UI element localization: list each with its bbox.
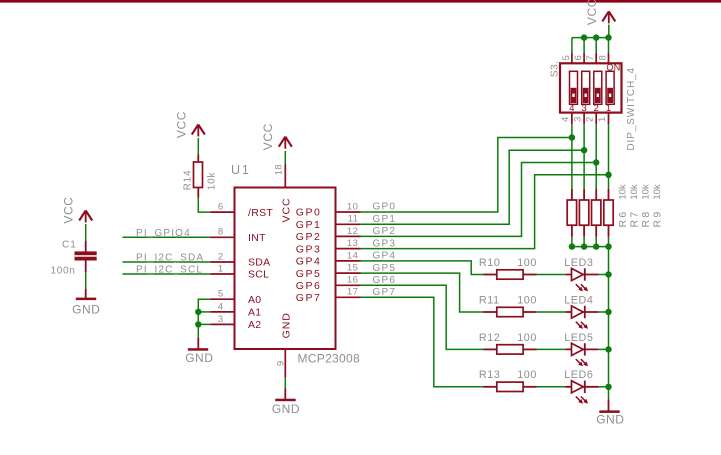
pin number 3 [218, 314, 224, 325]
net label GP0 [373, 202, 397, 213]
value 10k (R7) [629, 184, 640, 200]
label LED3 [564, 257, 593, 269]
pin name GP3 [296, 243, 322, 255]
svg-text:LED5: LED5 [564, 332, 593, 344]
pin name GP7 [296, 292, 322, 304]
resistor R6 [567, 189, 576, 237]
svg-text:C1: C1 [62, 240, 77, 251]
svg-text:GND: GND [72, 303, 100, 317]
svg-text:GP5: GP5 [373, 263, 397, 274]
svg-text:12: 12 [347, 226, 358, 237]
svg-text:13: 13 [347, 238, 358, 249]
pin 6 stub (S3) [583, 53, 585, 63]
svg-text:DIP_SWITCH_4: DIP_SWITCH_4 [626, 67, 637, 151]
pin 4 stub (S3) [571, 113, 573, 125]
junction S3 bus col 2 [581, 34, 587, 40]
pin number 8 (S3 top) [598, 55, 609, 60]
resistor R9 [604, 189, 613, 237]
pin 9 (GND) [284, 349, 286, 378]
pin number 11 [348, 214, 359, 225]
pin name SDA [248, 257, 271, 269]
label GND (pin 9) [272, 402, 300, 416]
wire A2 to GND [197, 324, 199, 338]
label LED5 [564, 332, 593, 344]
svg-text:LED4: LED4 [564, 294, 593, 306]
svg-text:100: 100 [517, 257, 537, 269]
pin 14 (GP4) [336, 260, 361, 262]
svg-text:16: 16 [347, 275, 358, 286]
svg-text:7: 7 [585, 55, 596, 60]
pin number 6 (S3 top) [573, 55, 584, 60]
wire A1 [198, 311, 210, 313]
wire R7 bottom [583, 237, 585, 247]
junction GP1 at S3 column [581, 147, 587, 153]
svg-text:GP5: GP5 [296, 268, 322, 280]
svg-text:SCL: SCL [248, 269, 269, 281]
wire bus to VCC [608, 25, 610, 38]
label VCC (pin 18) [261, 123, 275, 150]
svg-text:8: 8 [218, 227, 224, 238]
svg-text:R6: R6 [617, 209, 629, 227]
svg-text:4: 4 [569, 103, 574, 114]
wire R14 to pin 6 [198, 198, 210, 213]
label LED4 [564, 294, 593, 306]
pin number 3 (S3 bottom) [572, 117, 583, 122]
pin number 1 (S3 bottom) [597, 117, 608, 122]
LED LED6 [565, 381, 598, 404]
svg-text:R8: R8 [640, 209, 652, 227]
wire R9 bottom [608, 237, 610, 247]
svg-text:100: 100 [517, 294, 537, 306]
value 10k (R9) [652, 184, 663, 200]
junction S3 bus col 3 [593, 34, 599, 40]
pin number 6 [218, 202, 224, 213]
svg-text:GP6: GP6 [296, 280, 322, 292]
pin name VCC (U1) [280, 198, 292, 223]
label C1 [62, 240, 77, 251]
svg-text:10k: 10k [641, 184, 652, 200]
svg-text:R12: R12 [479, 332, 501, 344]
svg-text:GP4: GP4 [296, 256, 322, 268]
net label GP6 [373, 275, 397, 286]
svg-text:A0: A0 [248, 294, 261, 306]
svg-text:R13: R13 [479, 369, 501, 381]
svg-text:1: 1 [597, 117, 608, 122]
svg-text:GP4: GP4 [373, 251, 397, 262]
svg-text:PI_I2C_SCL: PI_I2C_SCL [136, 265, 203, 276]
pin name A1 [248, 307, 261, 319]
wire GP6 [361, 285, 484, 349]
wire LED bus [608, 247, 610, 400]
pin number 4 (S3 bottom) [560, 117, 571, 122]
svg-text:11: 11 [348, 214, 359, 225]
svg-text:17: 17 [347, 287, 358, 298]
svg-text:4: 4 [560, 117, 571, 122]
net label PI_GPIO4 [136, 228, 191, 239]
svg-text:VCC: VCC [585, 0, 599, 25]
value 100 (R13) [517, 369, 537, 381]
pin number 13 [347, 238, 358, 249]
value 100 (R12) [517, 332, 537, 344]
wire GP1 [361, 150, 585, 224]
junction R8 bus [593, 243, 599, 249]
label LED6 [564, 369, 593, 381]
wire R10 to LED3 [537, 274, 566, 276]
svg-text:6: 6 [218, 202, 224, 213]
power VCC (S3) [602, 11, 615, 23]
junction R6 bus [569, 243, 575, 249]
resistor R13 [483, 382, 536, 391]
svg-text:GP0: GP0 [373, 202, 397, 213]
svg-text:10k: 10k [206, 172, 217, 191]
resistor R10 [483, 270, 536, 279]
net label PI_I2C_SCL [136, 265, 203, 276]
wire pin18 to VCC [284, 151, 286, 164]
svg-text:GND: GND [596, 412, 624, 426]
wire GP5 [361, 273, 484, 312]
wire S3 col 4 down [608, 124, 610, 189]
label R7 [628, 209, 640, 227]
wire S3 pin 8 riser [608, 38, 610, 53]
junction R9 bus [605, 243, 611, 249]
wire net PI_I2C_SCL [123, 273, 211, 275]
svg-text:100n: 100n [51, 266, 76, 277]
svg-text:R14: R14 [183, 170, 194, 191]
pin 4 (A1) [211, 311, 235, 313]
wire GP3 [361, 175, 609, 249]
svg-text:A2: A2 [248, 319, 261, 331]
svg-text:9: 9 [276, 360, 287, 366]
LED LED5 [565, 343, 598, 366]
svg-text:10: 10 [347, 201, 358, 212]
pin number 14 [347, 250, 358, 261]
pin 3 (A2) [211, 323, 235, 325]
pin number 15 [347, 263, 358, 274]
wire pin9 to GND [284, 378, 286, 389]
svg-text:GP2: GP2 [296, 231, 322, 243]
svg-text:GP1: GP1 [296, 219, 322, 231]
svg-text:1: 1 [606, 103, 611, 114]
svg-text:3: 3 [218, 314, 224, 325]
wire net PI_GPIO4 [123, 236, 211, 238]
svg-text:A1: A1 [248, 307, 261, 319]
pin 1 stub (S3) [608, 113, 610, 125]
junction R7 bus [581, 243, 587, 249]
value 10k (R6) [618, 184, 629, 200]
svg-text:GP7: GP7 [373, 287, 397, 298]
wire S3 col 1 down [571, 124, 573, 189]
resistor R12 [483, 345, 536, 354]
junction LED4 bus [605, 309, 611, 315]
pin name GP4 [296, 256, 322, 268]
wire A2 [198, 312, 210, 325]
wire LED6 to bus [599, 386, 609, 388]
pin number 12 [347, 226, 358, 237]
svg-text:LED6: LED6 [564, 369, 593, 381]
svg-text:GP3: GP3 [296, 243, 322, 255]
net label GP5 [373, 263, 397, 274]
pin 16 (GP6) [336, 284, 361, 286]
power VCC (R14) [192, 125, 205, 137]
pin number 5 (S3 top) [561, 55, 572, 60]
wire LED4 to bus [599, 311, 609, 313]
value 10k (R8) [641, 184, 652, 200]
wire S3 col 3 down [595, 124, 597, 189]
svg-text:1: 1 [218, 263, 224, 274]
junction A1 [195, 309, 201, 315]
switch S3 position digit 3 [581, 103, 586, 114]
pin 10 (GP0) [336, 211, 361, 213]
label U1 [231, 163, 251, 177]
power VCC (pin 18) [279, 137, 292, 149]
svg-text:GP7: GP7 [296, 292, 322, 304]
wire GP4 [361, 261, 484, 275]
svg-text:ON: ON [606, 63, 620, 73]
svg-text:GP1: GP1 [373, 214, 397, 225]
switch S3 body [560, 63, 622, 112]
ground GND (C1) [76, 289, 96, 300]
svg-text:5: 5 [561, 55, 572, 60]
pin number 1 [218, 263, 224, 274]
label R13 [479, 369, 501, 381]
wire net PI_I2C_SDA [123, 261, 211, 263]
svg-text:14: 14 [347, 250, 358, 261]
pin number 2 (S3 bottom) [585, 117, 596, 122]
svg-text:10k: 10k [618, 184, 629, 200]
pin name GP2 [296, 231, 322, 243]
pin number 16 [347, 275, 358, 286]
pin name GP0 [296, 207, 322, 219]
pin number 9 [276, 360, 287, 366]
switch S3 position digit 1 [606, 103, 611, 114]
resistor R8 [592, 189, 601, 237]
pin 18 (VCC) [284, 164, 286, 188]
pin name A2 [248, 319, 261, 331]
svg-text:INT: INT [248, 232, 266, 244]
label VCC (S3) [585, 0, 599, 25]
junction GP3 at S3 column [605, 172, 611, 178]
label R8 [640, 209, 652, 227]
switch S3 position digit 2 [594, 103, 599, 114]
junction S3 bus col 4 [605, 34, 611, 40]
svg-text:2: 2 [218, 251, 224, 262]
pin 2 stub (S3) [595, 113, 597, 125]
pin 7 stub (S3) [595, 53, 597, 63]
svg-text:R9: R9 [651, 209, 663, 227]
pin 13 (GP3) [336, 248, 361, 250]
resistor R11 [483, 307, 536, 316]
svg-text:R11: R11 [479, 294, 500, 306]
pin name INT [248, 232, 266, 244]
svg-text:5: 5 [218, 289, 224, 300]
wire S3 col 2 down [583, 124, 585, 189]
wire GP7 [361, 297, 484, 387]
ground GND (A pins) [188, 338, 208, 351]
svg-text:10k: 10k [652, 184, 663, 200]
label R12 [479, 332, 501, 344]
label R10 [479, 257, 501, 269]
junction GP0 at S3 column [569, 134, 575, 140]
svg-text:2: 2 [594, 103, 599, 114]
IC U1 MCP23008 body [235, 188, 336, 350]
label VCC (C1) [61, 196, 75, 223]
wire R13 to LED6 [537, 386, 566, 388]
power VCC (C1) [79, 211, 92, 223]
resistor R7 [579, 189, 588, 237]
wire R12 to LED5 [537, 348, 566, 350]
pin number 4 [218, 301, 224, 312]
label DIP_SWITCH_4 [626, 67, 637, 151]
net label PI_I2C_SDA [136, 253, 204, 264]
wire GP2 [361, 163, 597, 237]
border top line [0, 0, 721, 3]
pin 11 (GP1) [336, 223, 361, 225]
junction LED6 bus [605, 384, 611, 390]
label S3. [549, 61, 561, 77]
net label GP2 [373, 226, 397, 237]
pin 5 stub (S3) [571, 53, 573, 63]
svg-text:SDA: SDA [248, 257, 271, 269]
wire resistor bottom bus [572, 246, 609, 248]
wire R8 bottom [595, 237, 597, 247]
svg-text:R10: R10 [479, 257, 501, 269]
pin number 17 [347, 287, 358, 298]
net label GP1 [373, 214, 397, 225]
svg-text:GP6: GP6 [373, 275, 397, 286]
pin 6 (/RST) [211, 211, 235, 213]
svg-text:VCC: VCC [280, 198, 292, 223]
svg-text:PI_GPIO4: PI_GPIO4 [136, 228, 191, 239]
svg-text:8: 8 [598, 55, 609, 60]
LED LED3 [565, 268, 598, 291]
svg-text:18: 18 [273, 164, 284, 175]
svg-text:LED3: LED3 [564, 257, 593, 269]
svg-text:15: 15 [347, 263, 358, 274]
svg-text:3: 3 [572, 117, 583, 122]
svg-text:100: 100 [517, 332, 537, 344]
svg-text:PI_I2C_SDA: PI_I2C_SDA [136, 253, 204, 264]
svg-text:GND: GND [185, 351, 213, 365]
wire S3 pin 6 riser [583, 38, 585, 53]
pin 2 (SDA) [211, 261, 235, 263]
junction GP2 at S3 column [593, 159, 599, 165]
value 100 (R10) [517, 257, 537, 269]
pin 1 (SCL) [211, 273, 235, 275]
label R6 [617, 209, 629, 227]
ground GND (pin 9) [275, 389, 295, 402]
svg-text:100: 100 [517, 369, 537, 381]
junction LED5 bus [605, 346, 611, 352]
svg-text:U1: U1 [231, 163, 251, 177]
pin name GP6 [296, 280, 322, 292]
pin 5 (A0) [211, 298, 235, 300]
svg-text:4: 4 [218, 301, 224, 312]
pin number 2 [218, 251, 224, 262]
label R14 [183, 170, 194, 191]
label GND (A pins) [185, 351, 213, 365]
pin name GND (U1) [280, 312, 292, 338]
pin 12 (GP2) [336, 235, 361, 237]
wire GP0 [361, 138, 572, 213]
junction A2 [195, 321, 201, 327]
pin name A0 [248, 294, 261, 306]
value 10k (R14) [206, 172, 217, 191]
pin 17 (GP7) [336, 296, 361, 298]
pin name /RST [248, 207, 273, 219]
svg-text:R7: R7 [628, 209, 640, 227]
pin number 7 (S3 top) [585, 55, 596, 60]
wire LED5 to bus [599, 348, 609, 350]
pin number 5 [218, 289, 224, 300]
svg-text:GP3: GP3 [373, 238, 397, 249]
label ON [606, 63, 620, 73]
wire R11 to LED4 [537, 311, 566, 313]
label VCC (R14) [174, 111, 188, 138]
wire A0 [198, 299, 210, 312]
value MCP23008 [298, 352, 360, 366]
svg-text:S3.: S3. [549, 61, 561, 77]
resistor R14 [194, 155, 203, 198]
pin 8 (INT) [211, 236, 235, 238]
svg-text:VCC: VCC [174, 111, 188, 138]
junction LED3 bus [605, 271, 611, 277]
wire R6 bottom [571, 237, 573, 247]
svg-text:GP0: GP0 [296, 207, 322, 219]
svg-text:GND: GND [280, 312, 292, 338]
label R9 [651, 209, 663, 227]
label R11 [479, 294, 500, 306]
capacitor C1 [75, 241, 97, 272]
wire VCC bus (S3 top) [572, 37, 609, 39]
wire S3 pin 5 riser [571, 38, 573, 53]
svg-text:3: 3 [581, 103, 586, 114]
net label GP4 [373, 251, 397, 262]
wire VCC to R14 [197, 138, 199, 155]
net label GP3 [373, 238, 397, 249]
label GND (C1) [72, 303, 100, 317]
pin name SCL [248, 269, 269, 281]
wire C1 to GND [85, 272, 87, 289]
label GND (LED bus) [596, 412, 624, 426]
wire LED3 to bus [599, 274, 609, 276]
wire S3 pin 7 riser [595, 38, 597, 53]
pin name GP1 [296, 219, 322, 231]
svg-text:MCP23008: MCP23008 [298, 352, 360, 366]
svg-text:/RST: /RST [248, 207, 273, 219]
ground GND (LED bus) [599, 400, 619, 413]
svg-text:VCC: VCC [61, 196, 75, 223]
svg-text:GP2: GP2 [373, 226, 397, 237]
pin number 18 [273, 164, 284, 175]
LED LED4 [565, 306, 598, 329]
pin number 10 [347, 201, 358, 212]
pin 3 stub (S3) [583, 113, 585, 125]
pin number 8 [218, 227, 224, 238]
value 100n [51, 266, 76, 277]
value 100 (R11) [517, 294, 537, 306]
pin 15 (GP5) [336, 272, 361, 274]
pin 8 stub (S3) [608, 53, 610, 63]
pin name GP5 [296, 268, 322, 280]
svg-text:VCC: VCC [261, 123, 275, 150]
svg-text:10k: 10k [629, 184, 640, 200]
svg-text:6: 6 [573, 55, 584, 60]
net label GP7 [373, 287, 397, 298]
svg-text:GND: GND [272, 402, 300, 416]
switch S3 position digit 4 [569, 103, 574, 114]
svg-text:2: 2 [585, 117, 596, 122]
wire VCC to C1 [85, 224, 87, 241]
